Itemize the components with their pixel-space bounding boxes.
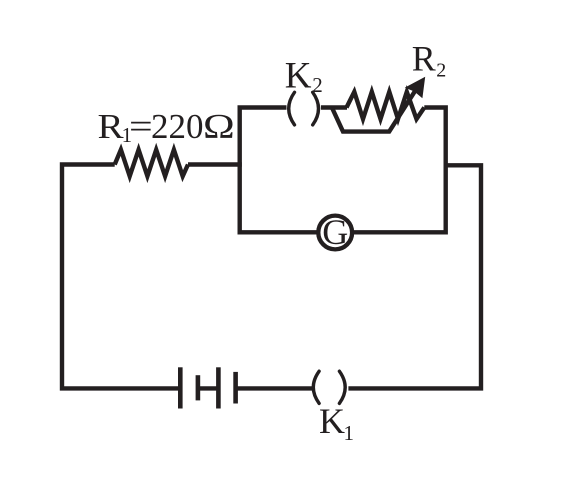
- svg-text:2: 2: [312, 73, 323, 97]
- svg-text:1: 1: [344, 421, 355, 445]
- rheostat R2 zigzag: [347, 92, 425, 119]
- svg-text:K: K: [285, 56, 312, 97]
- wire: battery to key K1: [237, 386, 313, 390]
- wire: K2 to rheostat R2: [321, 105, 347, 109]
- wire: parallel section frame (top-left, left edge, bottom, right edge, top-right): [240, 108, 446, 233]
- svg-text:2: 2: [436, 59, 446, 81]
- svg-text:K: K: [319, 401, 345, 441]
- wire: stub from parallel section to right vertical and down to bottom-right corner, then to K1: [348, 165, 481, 388]
- rheostat R2 body outline and wiper arrow shaft: [332, 89, 417, 132]
- battery cell 1 long plate: [178, 367, 183, 408]
- svg-text:R: R: [98, 108, 124, 147]
- svg-text:Ω: Ω: [203, 107, 235, 146]
- label K1: [319, 401, 354, 445]
- wire: between battery cells: [199, 386, 217, 390]
- battery cell 2 short plate: [233, 372, 238, 404]
- svg-text:220: 220: [151, 107, 204, 146]
- battery cell 2 long plate: [216, 367, 221, 408]
- resistor R1 zigzag: [115, 150, 188, 177]
- svg-text:R: R: [412, 38, 436, 78]
- rheostat R2 arrow head: [405, 77, 425, 99]
- wire: R1 right lead to node of parallel section: [188, 162, 242, 166]
- label K2: [285, 56, 323, 97]
- label R1=220ohm: [98, 107, 235, 147]
- wire: left branch (R1 left lead, left vertical, bottom-left segment to battery): [62, 165, 178, 389]
- svg-text:G: G: [322, 212, 348, 252]
- key K1 contact symbol ( ): [313, 371, 345, 403]
- label R2: [412, 38, 447, 81]
- key K2 contact symbol ( ): [289, 92, 319, 125]
- galvanometer G circle: [318, 216, 352, 250]
- svg-text:=: =: [129, 108, 153, 146]
- battery cell 1 short plate: [196, 375, 201, 400]
